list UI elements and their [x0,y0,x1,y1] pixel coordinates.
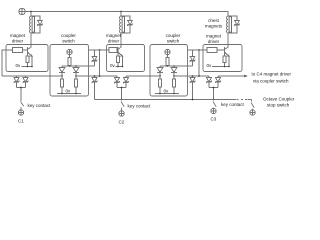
svg-text:coupler: coupler [61,33,76,38]
diode D14 (key2 a) [115,78,120,88]
connector C3 (circle-plus) [211,108,216,113]
svg-text:magnet: magnet [10,33,26,38]
wire: key1 top rail [2,75,62,77]
svg-text:0v: 0v [164,89,170,94]
node: U3 input junction [198,49,200,51]
wire: dashed link to stop switch [237,99,248,101]
wire: key line riser into U1 [2,50,6,76]
diode D5 (S1 branch B) [73,66,79,76]
node: U2 input junction [99,49,101,51]
diode D16 (key3 a) [207,76,212,88]
wire: S1 split rail [62,65,95,67]
node: bus junction col2 [120,11,122,13]
node: S2 branch A junction [159,75,161,77]
switch: key contact 3 [213,102,216,109]
magnet coil L2 [120,12,125,47]
wire: top supply bus [25,12,228,16]
magnet coil L1 [30,12,35,47]
wire: key1 diode join [17,88,26,102]
resistor R8a (S2 branch A) [158,76,161,94]
svg-text:driver: driver [108,38,120,43]
transistor Q1 [28,45,33,67]
zener D10 (S2 out to split rail) [190,50,195,66]
svg-text:switch: switch [62,38,75,43]
wire: coupled rail from key2 to S2 [126,75,160,77]
svg-text:switch: switch [167,38,180,43]
diode D8 (S2 branch A) [157,66,163,76]
switch: octave coupler stop switch [251,103,254,110]
zener D7 (to key-common line) [92,78,97,100]
svg-text:0v: 0v [66,89,72,94]
diode D13 (key1 b) [23,76,28,88]
resistor R4b (S1 branch B) [74,76,77,94]
svg-text:magnets: magnets [205,24,223,29]
wire: key2 diode join [117,88,126,100]
wire: coupled rail S1B to key2 diode [76,75,117,77]
svg-text:stop switch: stop switch [267,103,290,108]
connector (circle-plus) stop switch [250,110,255,115]
svg-text:chest: chest [208,18,220,23]
zener D6 (S1 out to split rail) [92,50,97,66]
magnet driver box U3 [203,45,242,72]
arrowhead to C4 [244,75,248,78]
flyback zener D3 across L3 [228,16,240,33]
wire: S2 split rail [160,65,193,67]
resistor R8b (S2 branch B) [172,76,175,94]
flyback zener D1 across L1 [31,16,43,33]
svg-text:magnet: magnet [106,33,122,38]
connector C1 (circle-plus) [18,110,23,115]
magnet coil L3 (chest magnet) [227,16,232,47]
wire: U2 input drop [99,50,101,76]
svg-text:key contact: key contact [28,103,52,108]
svg-text:to C4 magnet driver: to C4 magnet driver [252,72,292,77]
lamp/contact symbol (circle-plus) S1 [67,49,72,54]
wire: S2 0v bottom rail [155,93,179,95]
transistor Q3 [225,45,230,67]
diode D15 (key2 b) [124,78,129,88]
svg-text:driver: driver [208,39,220,44]
resistor R3 (coupler S1) [68,55,71,66]
resistor R6 (base-emitter U2) [116,55,119,67]
wire: coupled rail S2B to key3 diode [174,75,209,77]
diode D12 (key1 a) [14,76,19,88]
node: S2 branch B junction [173,75,175,77]
svg-text:driver: driver [12,38,24,43]
coupler switch box S2 [150,45,188,97]
diode D9 (S2 branch B) [171,66,177,76]
wire: key2 diode stubs [117,76,126,78]
wire: rail key3 to C4 arrow [218,75,247,77]
switch: key contact 1 [21,102,24,110]
node: S1 branch A junction [61,75,63,77]
wire: U3 input drop [198,50,200,76]
wire: S2 output to U3 input [188,49,204,51]
svg-text:key contact: key contact [221,102,245,107]
svg-text:coupler: coupler [166,33,181,38]
wire: key3 diode join [209,88,218,100]
svg-text:key contact: key contact [128,103,152,108]
zener D11 (to key-common line) [190,78,195,100]
resistor R4a (S1 branch A) [60,76,63,94]
resistor R2 (base-emitter) [26,55,29,67]
resistor R1 (base input) [6,48,28,53]
svg-text:C1: C1 [18,119,24,124]
svg-text:via coupler switch: via coupler switch [253,79,289,84]
diode D17 (key3 b) [216,76,221,88]
node: S1 branch B junction [75,75,77,77]
wire: U3 emitter bottom rail [212,66,229,68]
svg-text:0v: 0v [207,63,213,68]
wire: coupler common line [95,99,252,101]
resistor R9 (base input U3) [203,48,225,53]
svg-text:Octave Coupler: Octave Coupler [263,97,295,102]
magnet driver box U2 [107,45,145,72]
switch: key contact 2 [121,100,124,111]
connector C2 (circle-plus) [119,111,124,116]
resistor R10 (base-emitter U3) [223,55,226,67]
wire: S1 0v bottom rail [57,93,81,95]
magnet driver box U1 [6,45,48,72]
svg-text:C3: C3 [211,117,217,122]
wire: U1 emitter bottom rail [22,66,33,68]
flyback zener D2 across L2 [121,16,133,33]
resistor R5 (base input U2) [107,48,119,53]
lamp/contact symbol (circle-plus) S2 [165,49,170,54]
coupler switch box S1 [50,45,89,97]
node: bus junction col1 [30,11,32,13]
wire: S1 output to U2 input [89,49,107,51]
resistor R7 (coupler S2) [166,55,169,66]
diode D4 (S1 branch A) [59,66,65,76]
transistor Q2 [118,45,123,67]
svg-text:magnet: magnet [206,34,222,39]
svg-text:C2: C2 [119,120,125,125]
supply terminal (circle-plus) top left [19,8,25,14]
svg-text:0v: 0v [110,63,116,68]
svg-text:0v: 0v [16,63,22,68]
wire: U2 emitter bottom rail [116,66,123,68]
